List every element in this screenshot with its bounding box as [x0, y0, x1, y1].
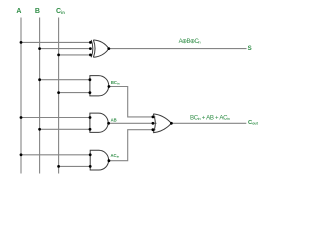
junction A-AND3 branch [20, 153, 23, 156]
svg-text:S: S [248, 45, 252, 52]
wire AND3 output to OR input [109, 130, 156, 161]
junction XOR input Cin [89, 54, 92, 57]
wire A vertical [20, 18, 22, 174]
svg-text:Cin: Cin [56, 8, 65, 15]
svg-text:Cout: Cout [248, 120, 259, 126]
junction B-AND1 branch [38, 78, 41, 81]
wire AND1 output to OR input [109, 87, 156, 117]
junction AND1 input B [89, 78, 92, 81]
wire AND2 output to OR input [109, 122, 157, 124]
junction AND2 input A [89, 116, 92, 119]
svg-text:BCin + AB + ACin: BCin + AB + ACin [190, 114, 230, 121]
wire B vertical [39, 18, 41, 174]
svg-text:B: B [35, 8, 40, 15]
wire Cin to AND1 input [59, 92, 90, 94]
wire XOR output to S [109, 48, 247, 50]
junction OR input mid [152, 122, 155, 125]
junction AND1 output [108, 85, 111, 88]
wire B to AND2 input [40, 128, 90, 130]
junction OR input bottom [152, 128, 155, 131]
junction Cin-AND3 branch [57, 165, 60, 168]
junction XOR input B [89, 47, 92, 50]
and gate U3 (AB) [90, 113, 108, 132]
svg-text:BCin: BCin [111, 80, 120, 86]
wire OR output to Cout [171, 122, 246, 124]
junction B-AND2 branch [38, 128, 41, 131]
svg-text:A: A [16, 8, 21, 15]
junction Cin-XOR branch [57, 54, 60, 57]
junction Cin-AND1 branch [57, 91, 60, 94]
junction XOR input A [89, 41, 92, 44]
junction AND3 input Cin [89, 165, 92, 168]
junction A-XOR branch [20, 41, 23, 44]
junction A-AND2 branch [20, 116, 23, 119]
svg-text:A⊕B⊕Cin: A⊕B⊕Cin [179, 39, 201, 45]
svg-text:AB: AB [111, 117, 117, 122]
svg-text:ACin: ACin [111, 153, 120, 159]
junction AND3 input A [89, 153, 92, 156]
wire A to AND3 input [21, 154, 90, 156]
junction AND2 output [107, 122, 110, 125]
xor gate U1 [91, 40, 109, 57]
junction AND3 output [108, 159, 111, 162]
junction AND1 input Cin [89, 91, 92, 94]
and gate U2 (BCin) [90, 76, 109, 96]
junction OR output [170, 122, 173, 125]
wire Cin to AND3 input [59, 165, 91, 167]
wire B to XOR input [40, 48, 91, 50]
and gate U4 (ACin) [90, 150, 108, 170]
junction B-XOR branch [38, 47, 41, 50]
wire A to XOR input [21, 41, 90, 43]
wire Cin vertical [58, 18, 60, 174]
wire B to AND1 input [40, 79, 90, 81]
junction OR input top [152, 116, 155, 119]
or gate U5 [153, 114, 171, 133]
wire A to AND2 input [21, 117, 90, 119]
junction AND2 input B [89, 128, 92, 131]
junction XOR output [107, 47, 110, 50]
wire Cin to XOR input [59, 54, 91, 56]
